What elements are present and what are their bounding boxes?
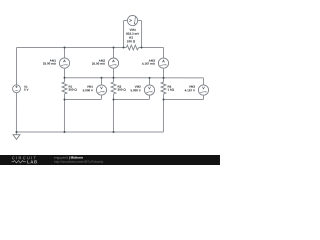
svg-text:4.167 V: 4.167 V	[185, 88, 195, 92]
svg-text:5.000 V: 5.000 V	[130, 88, 140, 92]
svg-text:1 kΩ: 1 kΩ	[167, 88, 174, 92]
svg-text:A: A	[112, 59, 115, 63]
svg-text:4.167 mA: 4.167 mA	[142, 62, 156, 66]
svg-text:200 Ω: 200 Ω	[117, 88, 126, 92]
svg-text:200 Ω: 200 Ω	[127, 39, 136, 43]
svg-text:LAB: LAB	[27, 159, 38, 164]
svg-text:A: A	[162, 59, 165, 63]
svg-text:200 Ω: 200 Ω	[68, 88, 77, 92]
svg-text:http://circuitlab.com/c/9f7zf7: http://circuitlab.com/c/9f7zf7okxs4y	[54, 160, 104, 164]
svg-text:25.00 mA: 25.00 mA	[43, 62, 57, 66]
svg-text:5.000 V: 5.000 V	[83, 88, 93, 92]
svg-text:25.00 mA: 25.00 mA	[92, 62, 106, 66]
svg-text:5 V: 5 V	[24, 88, 29, 92]
svg-text:A: A	[63, 59, 66, 63]
